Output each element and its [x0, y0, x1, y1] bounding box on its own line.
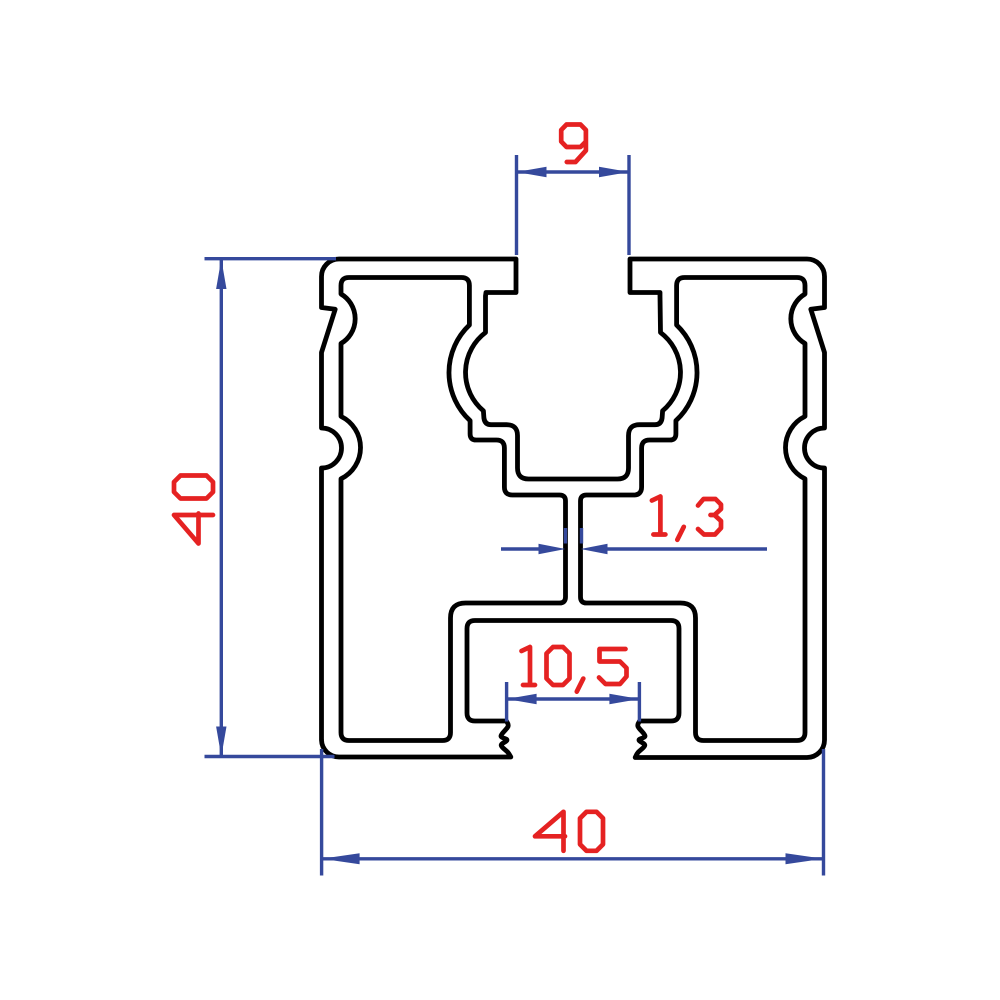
text 1,3	[652, 497, 721, 540]
dim 9: extension lines	[517, 155, 630, 255]
arrowheads dim 40 bottom	[322, 853, 360, 864]
dim 10,5: dimension line	[507, 697, 640, 700]
blue dimension graphics	[205, 155, 824, 876]
dim 40 left: extension lines	[205, 259, 337, 757]
arrowheads dim 1,3	[539, 544, 566, 554]
left chamber inner contour	[341, 278, 566, 741]
profile outer contour (40x40 extrusion with top T-slot and bottom channel)	[322, 259, 825, 758]
dim 10,5: extension lines	[507, 682, 640, 722]
arrowheads dim 9	[517, 167, 547, 177]
dim 9: dimension line	[517, 170, 630, 173]
text 40 (left, rotated)	[174, 476, 213, 544]
right chamber inner contour (mirror)	[581, 278, 806, 741]
dim 1,3: leaders	[501, 547, 767, 550]
red dimension texts (CAD stroke font)	[174, 125, 721, 851]
dim 1,3: web tick marks	[566, 528, 582, 544]
dim 40 left: dimension line	[220, 259, 223, 757]
dim 40 bottom: dimension line	[322, 857, 824, 860]
text 9 (top)	[561, 125, 586, 163]
dim 40 bottom: extension lines	[322, 749, 824, 876]
text 10,5	[522, 647, 627, 692]
arrowheads dim 10,5	[507, 694, 537, 704]
text 40 (bottom)	[535, 812, 603, 851]
arrowheads dim 40 left	[216, 259, 226, 289]
